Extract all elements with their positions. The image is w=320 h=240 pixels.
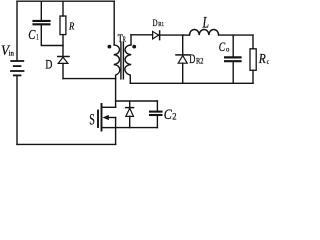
svg-text:R: R (68, 21, 74, 33)
svg-text:2: 2 (172, 111, 176, 121)
svg-text:D: D (189, 52, 195, 66)
svg-text:o: o (226, 45, 230, 54)
svg-text:D: D (45, 58, 52, 72)
svg-text:S: S (89, 112, 95, 129)
svg-text:C: C (28, 27, 36, 42)
svg-text:R: R (123, 35, 126, 44)
svg-text:R1: R1 (158, 22, 164, 28)
svg-text:in: in (9, 49, 15, 57)
svg-text:R: R (258, 52, 266, 67)
svg-text:D: D (153, 19, 158, 29)
svg-text:C: C (219, 40, 226, 54)
svg-text:1: 1 (36, 33, 38, 42)
svg-text:C: C (164, 106, 173, 123)
svg-text:o: o (267, 57, 269, 66)
svg-text:L: L (202, 15, 209, 32)
svg-text:R2: R2 (196, 57, 204, 66)
